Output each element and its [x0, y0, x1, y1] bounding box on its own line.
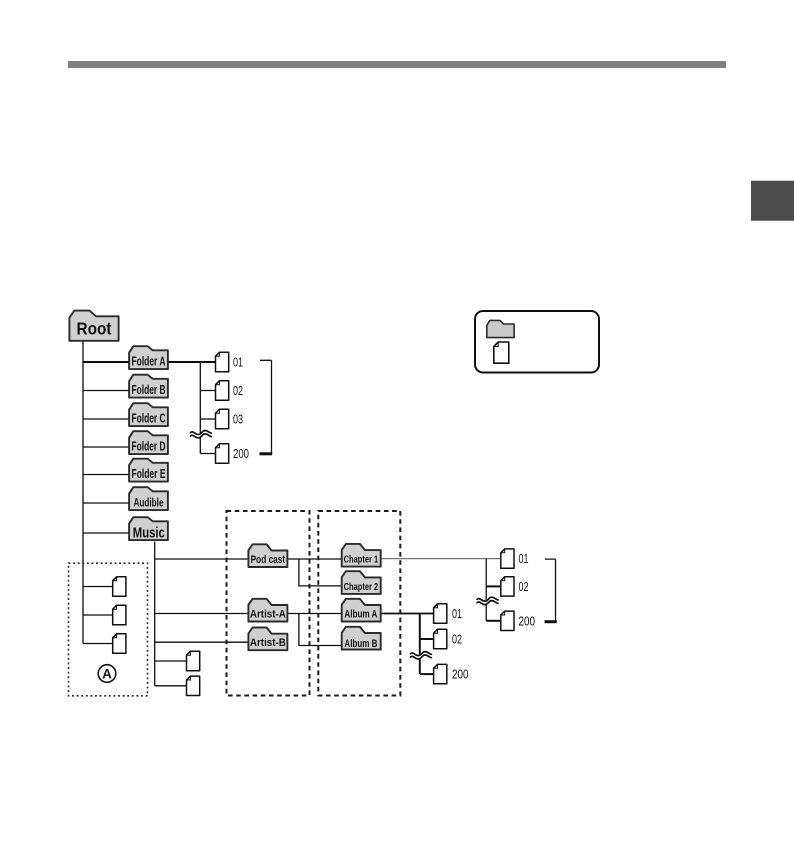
svg-text:Artist-B: Artist-B	[250, 637, 286, 649]
svg-text:Audible: Audible	[134, 497, 164, 509]
svg-text:03: 03	[233, 413, 243, 427]
svg-text:Folder B: Folder B	[132, 382, 166, 397]
svg-text:Folder D: Folder D	[132, 438, 166, 453]
svg-text:Chapter 2: Chapter 2	[344, 582, 379, 593]
svg-text:01: 01	[452, 607, 462, 621]
svg-text:Folder C: Folder C	[132, 410, 166, 425]
svg-text:Artist-A: Artist-A	[250, 608, 286, 620]
svg-text:A: A	[102, 666, 112, 681]
svg-text:200: 200	[519, 614, 536, 628]
svg-text:Pod cast: Pod cast	[251, 554, 286, 566]
svg-text:Folder E: Folder E	[132, 466, 166, 481]
svg-text:Album A: Album A	[344, 608, 377, 620]
svg-text:01: 01	[519, 552, 529, 566]
svg-text:200: 200	[452, 668, 469, 682]
svg-text:Music: Music	[133, 526, 165, 542]
svg-text:02: 02	[233, 384, 243, 398]
svg-text:Album B: Album B	[344, 638, 377, 650]
svg-text:Root: Root	[77, 319, 112, 339]
svg-text:01: 01	[233, 356, 243, 370]
svg-text:02: 02	[519, 580, 529, 594]
svg-text:02: 02	[452, 633, 462, 647]
svg-text:200: 200	[233, 447, 249, 461]
svg-text:Folder A: Folder A	[132, 353, 166, 368]
svg-text:Chapter 1: Chapter 1	[344, 554, 379, 565]
